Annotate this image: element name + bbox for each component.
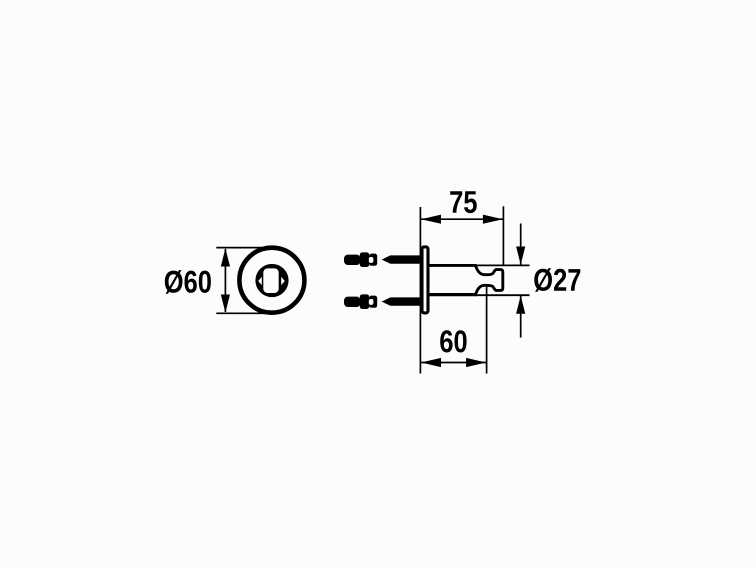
screw 1 anchor body (344, 255, 361, 265)
front view: square hole in hub (263, 268, 278, 293)
screw 1 anchor cap (369, 254, 377, 266)
label Ø27 (534, 268, 580, 292)
dim Ø27 lower leg (520, 295, 522, 337)
dim Ø60 arrow up (221, 248, 230, 266)
dim Ø60 arrow down (221, 295, 230, 313)
screw 1 anchor collar (360, 252, 369, 267)
front view: right notch wedge (281, 277, 285, 285)
label Ø60 (165, 270, 211, 294)
body bottom silhouette edge (475, 294, 530, 296)
side view: right extension line for 75 (502, 206, 504, 264)
dim 75 arrow right (483, 215, 503, 224)
front view: hub disc (255, 264, 288, 297)
screw 2 anchor hole (369, 299, 374, 305)
dim 60 arrow right (466, 358, 486, 367)
body top silhouette edge (475, 264, 530, 266)
dim 60 dimension line (421, 362, 486, 364)
dim Ø60 top extension line (216, 247, 269, 249)
screw 1 shaft (382, 255, 422, 263)
screw 2 anchor collar (360, 294, 369, 309)
dim 60 arrow left (421, 358, 441, 367)
dim Ø27 arrow down (516, 247, 525, 265)
dim Ø27 upper leg (520, 224, 522, 265)
holder groove and rim contour (476, 266, 503, 294)
label 60 (440, 330, 466, 352)
front view: escutcheon outer circle (239, 248, 304, 313)
wall plate (422, 247, 428, 313)
side view: left extension line through plate (419, 207, 421, 374)
front view: left notch wedge (258, 277, 262, 285)
dim Ø60 dimension line (224, 249, 226, 312)
dim Ø27 arrow up (516, 296, 525, 314)
screw 2 anchor cap (369, 296, 377, 308)
dim Ø60 bottom extension line (216, 312, 269, 314)
body bottom line (430, 293, 478, 296)
dim 60 right extension line (486, 287, 488, 374)
screw 1 anchor hole (369, 257, 374, 263)
dim 75 arrow left (421, 215, 441, 224)
screw 2 shaft (382, 297, 422, 305)
label 75 (450, 191, 477, 213)
screw 2 anchor body (344, 297, 361, 307)
body top line (430, 264, 477, 267)
dim 75 dimension line (421, 218, 503, 220)
